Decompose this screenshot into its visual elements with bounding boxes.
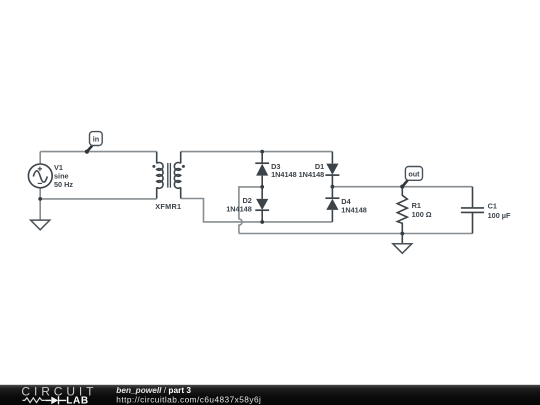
node in (flag): [85, 150, 89, 154]
diode D4: [325, 187, 339, 222]
wire top rail right (XFMR1 secondary to D1/D3): [181, 151, 333, 153]
capacitor C1: [461, 187, 484, 234]
diode D3: [255, 152, 269, 187]
svg-text:1N4148: 1N4148: [271, 170, 297, 179]
svg-text:ben_powell / part 3: ben_powell / part 3: [116, 385, 191, 395]
wire bottom left (V1 to XFMR1 primary): [40, 188, 157, 220]
resistor R1: [397, 187, 407, 234]
svg-text:50 Hz: 50 Hz: [54, 180, 73, 189]
ground (under R1): [401, 234, 403, 244]
node junction D1 cathode / D4 cathode / out: [331, 185, 335, 189]
svg-text:R1: R1: [412, 201, 421, 210]
wire secondary bottom jog to bridge: [181, 199, 333, 222]
ground (under V1): [31, 220, 50, 230]
node junction R1 bottom / ground rail: [400, 232, 404, 236]
svg-text:1N4148: 1N4148: [341, 205, 367, 214]
node junction top rail / D3: [260, 150, 264, 154]
voltage source V1: [28, 164, 52, 188]
svg-text:LAB: LAB: [66, 396, 88, 405]
svg-text:1N4148: 1N4148: [299, 170, 325, 179]
node A junction (D3 anode / D2 anode): [260, 185, 264, 189]
diode D2: [255, 187, 269, 222]
wire bottom ground rail: [239, 233, 473, 235]
svg-text:100 µF: 100 µF: [488, 211, 511, 220]
logo resistor zigzag: [23, 398, 46, 403]
node junction at V1 bottom: [38, 197, 42, 201]
footer bar: [0, 385, 540, 405]
wire top rail left (V1 to XFMR1 primary): [40, 152, 157, 165]
transformer XFMR1: [157, 152, 181, 199]
logo diode symbol: [46, 399, 52, 401]
node junction D2 cathode / secondary bottom: [260, 220, 264, 224]
svg-text:http://circuitlab.com/c6u4837x: http://circuitlab.com/c6u4837x58y6j: [116, 394, 261, 404]
wire output rail (bridge to R1 and C1): [332, 186, 472, 188]
svg-text:100 Ω: 100 Ω: [412, 210, 432, 219]
node out (flag): [400, 185, 404, 189]
svg-text:out: out: [408, 169, 420, 178]
wire node A to ground rail (with hop over crossing wire): [239, 187, 262, 234]
svg-text:C1: C1: [488, 202, 497, 211]
diode D1: [325, 152, 339, 187]
svg-text:XFMR1: XFMR1: [155, 202, 181, 211]
svg-text:in: in: [93, 134, 99, 143]
svg-text:1N4148: 1N4148: [226, 204, 252, 213]
